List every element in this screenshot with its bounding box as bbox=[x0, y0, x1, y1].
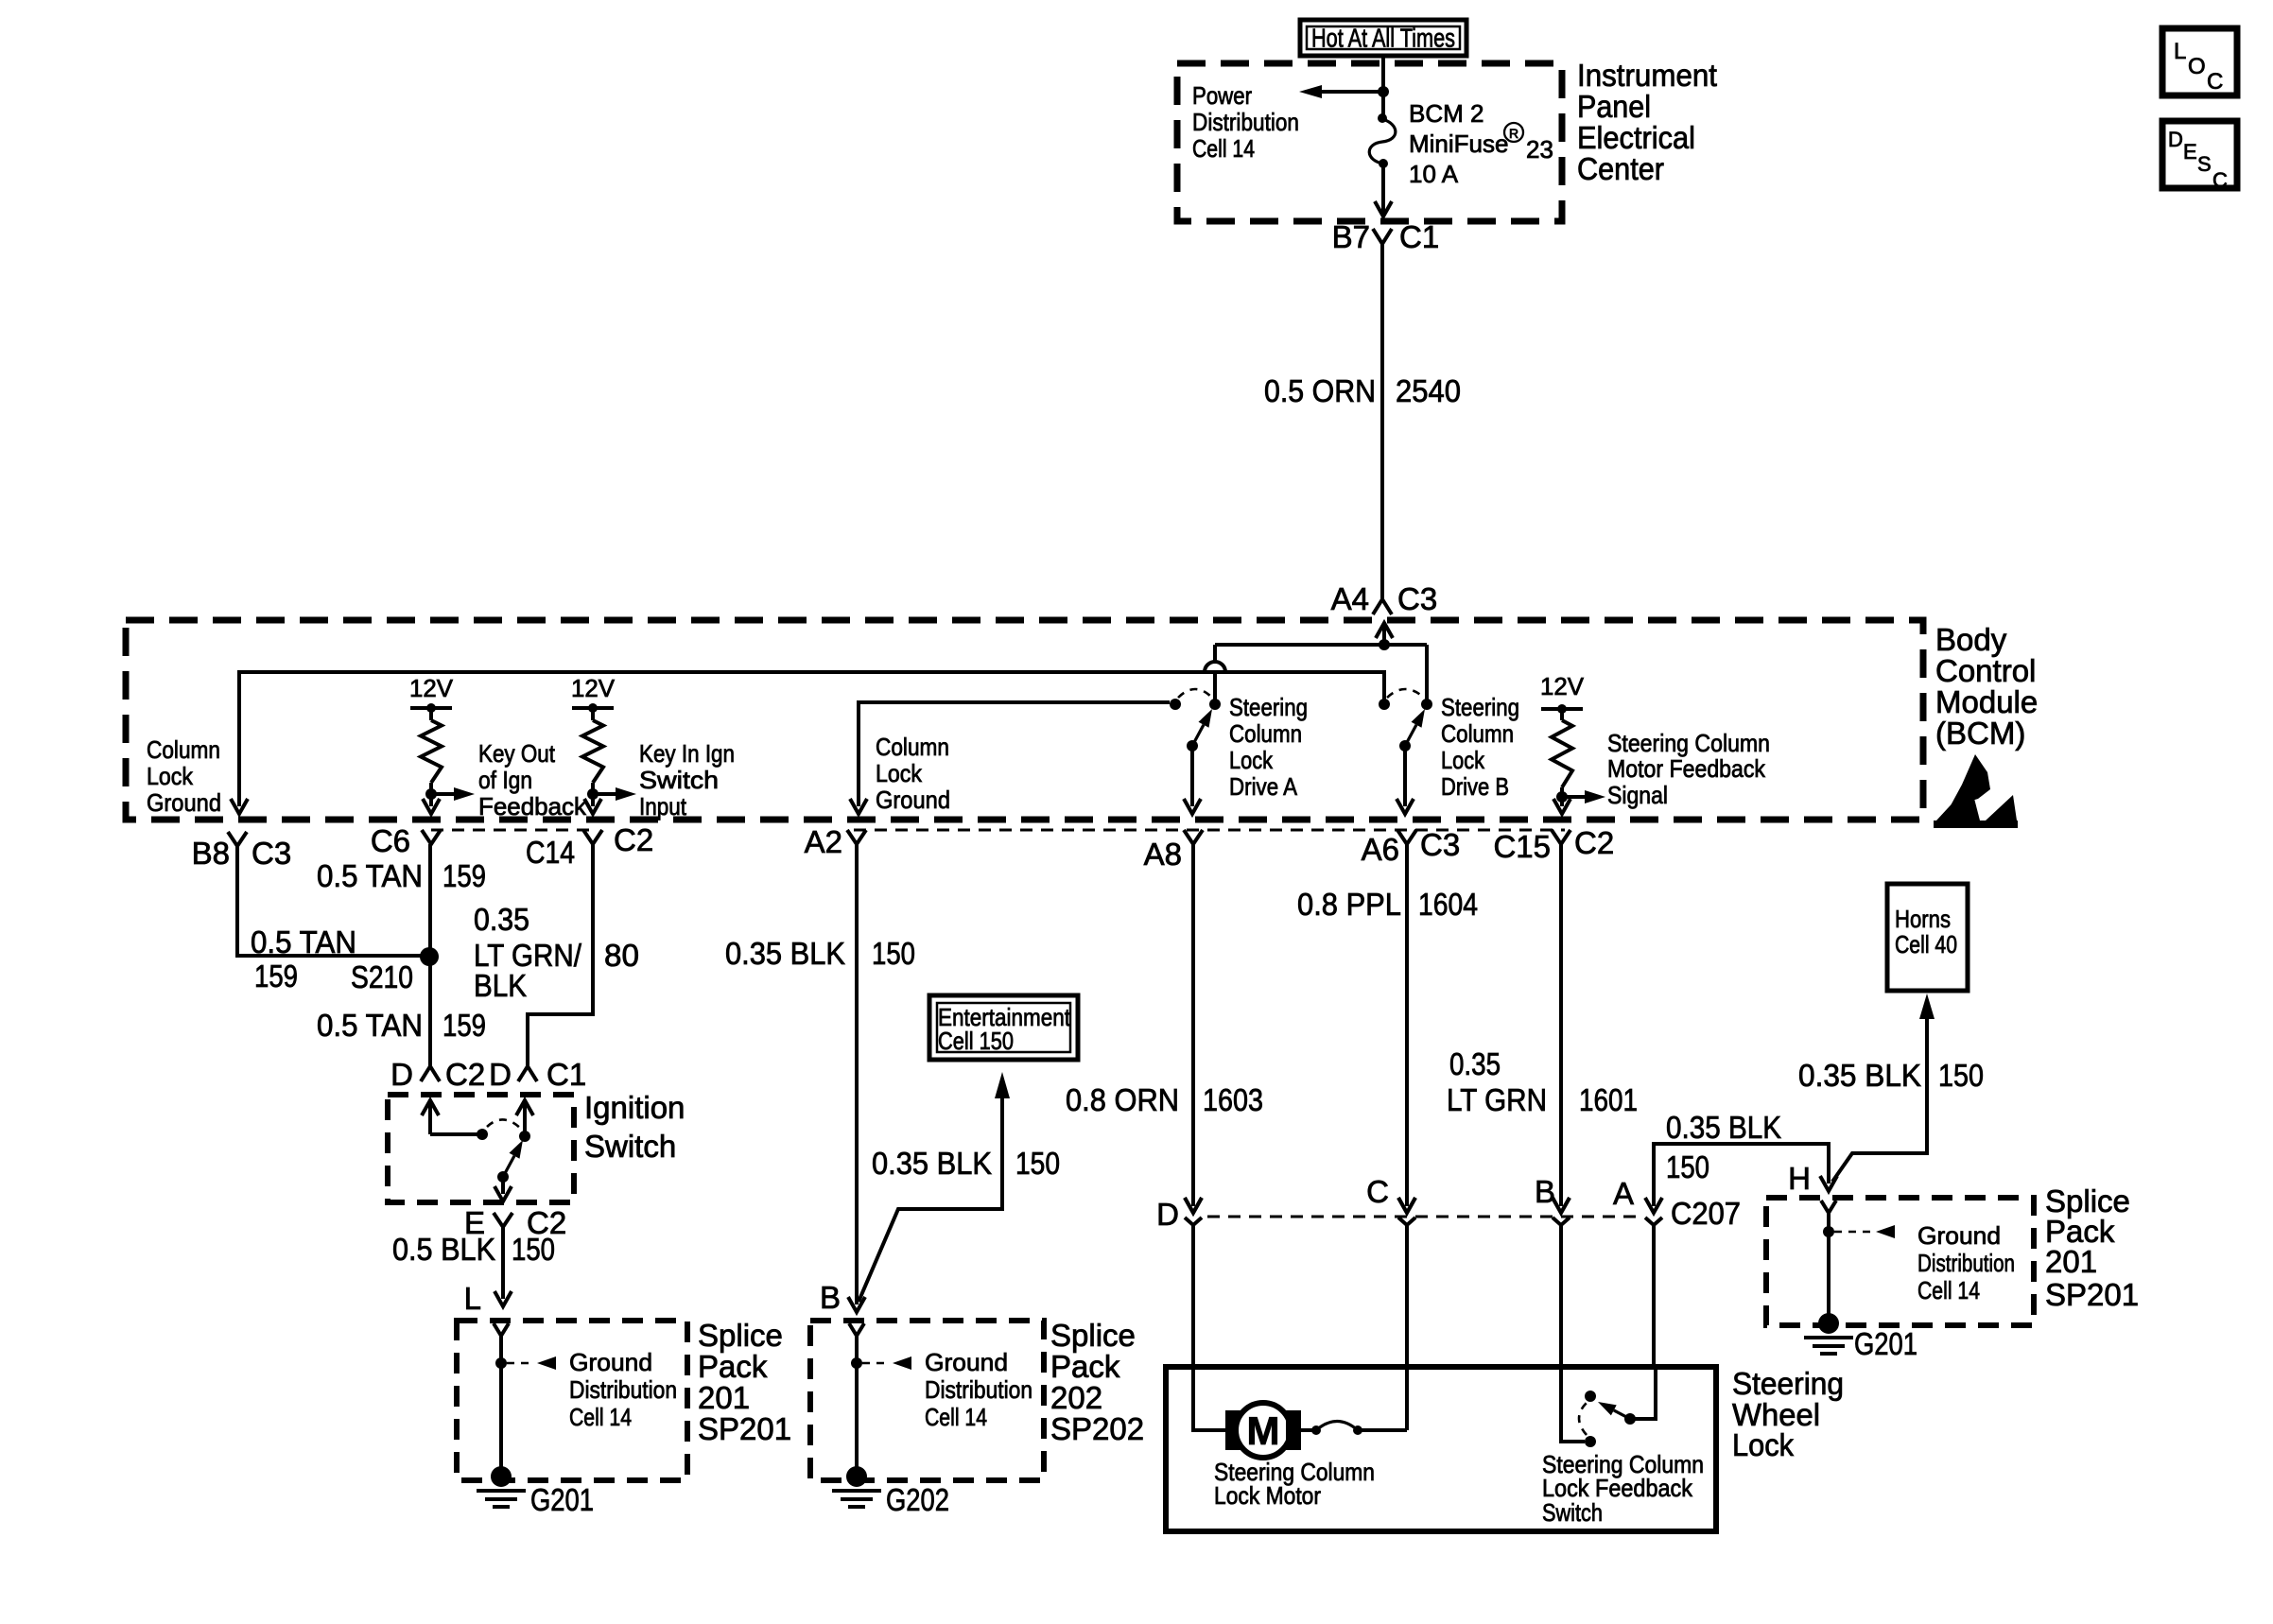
svg-text:Pack: Pack bbox=[1050, 1349, 1120, 1384]
svg-text:Switch: Switch bbox=[584, 1129, 676, 1164]
label 0.35 BLK 150 (A2) bbox=[725, 936, 915, 971]
svg-text:Lock: Lock bbox=[1229, 746, 1274, 774]
svg-text:D: D bbox=[489, 1057, 512, 1092]
wire B8 to S210 bbox=[237, 844, 422, 956]
svg-text:C15: C15 bbox=[1493, 829, 1551, 864]
svg-text:23: 23 bbox=[1526, 135, 1553, 164]
wire C from motor bbox=[1405, 1367, 1409, 1430]
svg-text:Column: Column bbox=[876, 733, 949, 761]
svg-text:C2: C2 bbox=[614, 822, 653, 857]
svg-text:0.5 BLK: 0.5 BLK bbox=[392, 1232, 495, 1267]
svg-text:159: 159 bbox=[442, 858, 486, 893]
wire D into motor bbox=[1193, 1367, 1225, 1430]
svg-text:Body: Body bbox=[1935, 622, 2007, 657]
svg-text:C1: C1 bbox=[1399, 219, 1439, 254]
junction: bus to A4/C3 with arrow bbox=[1376, 623, 1393, 650]
label Body Control Module (BCM) bbox=[1935, 622, 2038, 751]
svg-text:A: A bbox=[1613, 1176, 1634, 1211]
svg-text:Key In Ign: Key In Ign bbox=[639, 739, 735, 768]
label Splice Pack 202 SP202 bbox=[1050, 1318, 1144, 1446]
svg-text:Center: Center bbox=[1577, 151, 1664, 186]
ground G201 left bbox=[477, 1466, 594, 1517]
svg-text:201: 201 bbox=[2045, 1244, 2097, 1279]
connector A6 C3 bbox=[1362, 827, 1461, 867]
connector pin B bbox=[1535, 1174, 1570, 1370]
svg-text:80: 80 bbox=[604, 938, 639, 973]
svg-text:150: 150 bbox=[1666, 1149, 1709, 1184]
label Column Lock Ground left bbox=[147, 735, 221, 817]
connector A8 bbox=[1144, 830, 1203, 872]
svg-text:M: M bbox=[1247, 1408, 1280, 1453]
motor steering column lock bbox=[1225, 1403, 1301, 1458]
ground G201 right bbox=[1804, 1313, 1917, 1361]
resistor: key in ign switch input pull-up bbox=[571, 674, 636, 814]
label 0.8 ORN 1603 bbox=[1066, 1082, 1263, 1117]
svg-text:Splice: Splice bbox=[698, 1318, 783, 1353]
svg-text:Ignition: Ignition bbox=[584, 1090, 685, 1125]
label Splice Pack 201 SP201 right bbox=[2045, 1183, 2139, 1312]
svg-text:H: H bbox=[1788, 1161, 1811, 1196]
svg-text:10 A: 10 A bbox=[1409, 160, 1459, 188]
label Instrument Panel Electrical Center bbox=[1577, 58, 1717, 186]
svg-text:150: 150 bbox=[1015, 1146, 1060, 1181]
label Steering Column Lock Drive B bbox=[1441, 693, 1519, 801]
svg-text:LT GRN: LT GRN bbox=[1447, 1082, 1547, 1117]
svg-text:Module: Module bbox=[1935, 684, 2038, 719]
svg-text:SP201: SP201 bbox=[698, 1411, 791, 1446]
svg-text:150: 150 bbox=[512, 1232, 555, 1267]
svg-text:1604: 1604 bbox=[1418, 887, 1478, 922]
connector pin C bbox=[1366, 1174, 1415, 1370]
svg-text:Electrical: Electrical bbox=[1577, 120, 1695, 155]
connector C15 C2 bbox=[1493, 825, 1614, 864]
svg-text:Distribution: Distribution bbox=[1192, 108, 1299, 136]
label 0.5 TAN 159 (S210 branch) bbox=[251, 924, 356, 993]
Ignition Switch box bbox=[388, 1095, 574, 1202]
label Steering Wheel Lock bbox=[1732, 1366, 1844, 1462]
wire A up to splice H bbox=[1645, 1144, 1837, 1213]
svg-text:Steering: Steering bbox=[1732, 1366, 1844, 1401]
ESD sensitive symbol bbox=[1934, 754, 2018, 828]
label 0.5 TAN 159 (lower) bbox=[317, 1008, 486, 1043]
svg-text:Ground: Ground bbox=[876, 786, 950, 814]
label 0.5 ORN 2540 bbox=[1264, 373, 1461, 408]
connector C14 C2 bbox=[526, 822, 653, 870]
svg-text:A2: A2 bbox=[805, 824, 842, 859]
label 0.8 PPL 1604 bbox=[1297, 887, 1478, 922]
svg-text:Drive B: Drive B bbox=[1441, 772, 1509, 801]
svg-text:12V: 12V bbox=[571, 674, 616, 702]
label Column Lock Ground right bbox=[876, 733, 950, 814]
svg-text:Cell 150: Cell 150 bbox=[938, 1027, 1014, 1055]
connector E C2 bbox=[464, 1205, 566, 1240]
label 0.5 BLK 150 bbox=[392, 1232, 555, 1267]
svg-text:C2: C2 bbox=[445, 1057, 485, 1092]
svg-text:0.8 PPL: 0.8 PPL bbox=[1297, 887, 1401, 922]
svg-text:Splice: Splice bbox=[1050, 1318, 1136, 1353]
wire splice to horns bbox=[1832, 993, 1935, 1182]
wire 0.5 BLK 150 bbox=[495, 1227, 512, 1306]
svg-text:L: L bbox=[2174, 39, 2186, 64]
ignition switch contacts bbox=[422, 1100, 533, 1201]
label 0.35 BLK 150 (A wire) bbox=[1666, 1110, 1781, 1184]
svg-text:150: 150 bbox=[872, 936, 915, 971]
svg-text:159: 159 bbox=[442, 1008, 486, 1043]
svg-text:(BCM): (BCM) bbox=[1935, 716, 2025, 751]
svg-text:B8: B8 bbox=[192, 836, 230, 871]
svg-text:Panel: Panel bbox=[1577, 89, 1651, 124]
Splice Pack SP201 box left bbox=[457, 1321, 687, 1480]
Body Control Module box bbox=[126, 620, 1923, 820]
svg-text:202: 202 bbox=[1050, 1380, 1102, 1415]
svg-text:BCM 2: BCM 2 bbox=[1409, 99, 1484, 128]
svg-text:150: 150 bbox=[1938, 1058, 1984, 1093]
svg-text:Cell 14: Cell 14 bbox=[569, 1403, 632, 1431]
connector D C2 ignition bbox=[390, 1057, 485, 1092]
switch: steering column lock drive A bbox=[1170, 689, 1221, 814]
svg-text:Distribution: Distribution bbox=[1917, 1249, 2015, 1277]
svg-text:Lock: Lock bbox=[1441, 746, 1485, 774]
svg-text:0.35: 0.35 bbox=[1449, 1046, 1501, 1081]
switch steering column lock feedback bbox=[1579, 1367, 1656, 1447]
connector pin D bbox=[1156, 1197, 1202, 1370]
label 0.35 BLK 150 (entertainment) bbox=[872, 1146, 1060, 1181]
svg-text:Input: Input bbox=[639, 792, 687, 821]
label Steering Column Lock Feedback Switch bbox=[1542, 1450, 1704, 1527]
svg-text:Steering: Steering bbox=[1441, 693, 1519, 721]
label BCM 2 MiniFuse R 23 10 A bbox=[1409, 99, 1553, 188]
connector into SP201 bbox=[494, 1323, 509, 1336]
svg-text:2540: 2540 bbox=[1396, 373, 1461, 408]
svg-text:R: R bbox=[1509, 126, 1518, 141]
svg-text:Distribution: Distribution bbox=[925, 1375, 1032, 1404]
svg-text:G201: G201 bbox=[530, 1482, 594, 1517]
svg-text:Ground: Ground bbox=[569, 1348, 652, 1376]
svg-text:A4: A4 bbox=[1331, 581, 1369, 616]
wire A8 0.8 ORN 1603 bbox=[1185, 844, 1202, 1213]
svg-text:G201: G201 bbox=[1854, 1326, 1917, 1361]
Instrument Panel Electrical Center box bbox=[1177, 63, 1562, 221]
svg-text:Hot At All Times: Hot At All Times bbox=[1311, 24, 1455, 53]
Entertainment Cell 150 box bbox=[929, 995, 1078, 1060]
label Key Out of Ign Feedback bbox=[478, 739, 587, 821]
svg-text:0.5 TAN: 0.5 TAN bbox=[317, 1008, 423, 1043]
Splice Pack SP202 box bbox=[810, 1321, 1044, 1480]
svg-text:0.5 ORN: 0.5 ORN bbox=[1264, 373, 1376, 408]
svg-text:12V: 12V bbox=[409, 674, 454, 702]
resistor: steering column motor feedback pull-up bbox=[1540, 672, 1605, 814]
svg-text:C14: C14 bbox=[526, 835, 575, 870]
connector line C6-C14-C2 bbox=[431, 829, 593, 832]
svg-text:1603: 1603 bbox=[1203, 1082, 1263, 1117]
svg-text:Lock: Lock bbox=[147, 762, 194, 790]
svg-text:Lock: Lock bbox=[1732, 1427, 1794, 1462]
svg-text:0.35 BLK: 0.35 BLK bbox=[872, 1146, 992, 1181]
svg-text:B: B bbox=[820, 1280, 841, 1315]
svg-text:G202: G202 bbox=[886, 1482, 949, 1517]
wire A2 0.35 BLK 150 to SP202 bbox=[848, 844, 865, 1312]
svg-text:C: C bbox=[2212, 168, 2228, 192]
svg-text:D: D bbox=[2168, 128, 2183, 151]
svg-text:C6: C6 bbox=[371, 823, 410, 858]
svg-text:0.35 BLK: 0.35 BLK bbox=[1666, 1110, 1781, 1145]
svg-text:Feedback: Feedback bbox=[478, 792, 587, 821]
svg-text:A8: A8 bbox=[1144, 837, 1182, 872]
label Ignition Switch bbox=[584, 1090, 685, 1164]
node: fuse feed junction bbox=[1378, 86, 1389, 97]
wire to Entertainment bbox=[859, 1072, 1010, 1302]
svg-text:C: C bbox=[2207, 69, 2223, 95]
connector B7 C1 bbox=[1332, 219, 1440, 254]
svg-text:MiniFuse: MiniFuse bbox=[1409, 130, 1508, 158]
svg-text:of Ign: of Ign bbox=[478, 766, 532, 794]
wire B into feedback switch bbox=[1561, 1367, 1585, 1442]
ground G202 bbox=[832, 1466, 949, 1517]
svg-text:Steering: Steering bbox=[1229, 693, 1308, 721]
Horns Cell 40 box bbox=[1887, 884, 1968, 991]
splice S210 bbox=[351, 947, 439, 994]
label Ground Distribution Cell 14 (right) bbox=[1917, 1221, 2015, 1304]
arrow to power distribution bbox=[1299, 85, 1383, 98]
wire: fuse output to IPEC edge bbox=[1375, 163, 1392, 216]
svg-text:Distribution: Distribution bbox=[569, 1375, 677, 1404]
svg-text:Column: Column bbox=[147, 735, 220, 764]
svg-text:Column: Column bbox=[1441, 719, 1514, 748]
svg-text:Horns: Horns bbox=[1895, 905, 1951, 933]
svg-text:BLK: BLK bbox=[474, 968, 527, 1003]
svg-text:S210: S210 bbox=[351, 959, 413, 994]
label 0.5 TAN 159 (upper) bbox=[317, 858, 486, 893]
connector D C1 ignition bbox=[489, 1057, 586, 1092]
svg-text:Ground: Ground bbox=[1917, 1221, 2001, 1250]
wire: column lock ground A2 bbox=[850, 702, 1170, 814]
label 0.35 BLK 150 (horns wire) bbox=[1798, 1058, 1984, 1093]
svg-text:Key Out: Key Out bbox=[478, 739, 556, 768]
svg-text:Pack: Pack bbox=[698, 1349, 768, 1384]
svg-text:1601: 1601 bbox=[1579, 1082, 1638, 1117]
connector into SP202 bbox=[849, 1323, 864, 1336]
power feed box "Hot At All Times" bbox=[1300, 20, 1466, 56]
resistor: key out of ign feedback pull-up bbox=[409, 674, 475, 814]
label 0.35 LT GRN 1601 bbox=[1447, 1046, 1638, 1117]
svg-text:Cell 14: Cell 14 bbox=[1917, 1276, 1980, 1304]
svg-text:Drive A: Drive A bbox=[1229, 772, 1298, 801]
svg-text:D: D bbox=[390, 1057, 413, 1092]
svg-text:Motor Feedback: Motor Feedback bbox=[1607, 754, 1766, 783]
wire C15 0.35 LT GRN 1601 bbox=[1553, 844, 1570, 1213]
wire 0.5 ORN 2540 bbox=[1380, 244, 1384, 586]
svg-text:B7: B7 bbox=[1332, 219, 1370, 254]
svg-text:Ground: Ground bbox=[925, 1348, 1008, 1376]
svg-text:Cell 14: Cell 14 bbox=[1192, 134, 1255, 163]
svg-text:0.35 BLK: 0.35 BLK bbox=[1798, 1058, 1921, 1093]
switch: steering column lock drive B bbox=[1379, 689, 1432, 814]
svg-text:12V: 12V bbox=[1540, 672, 1585, 700]
svg-text:0.35 BLK: 0.35 BLK bbox=[725, 936, 845, 971]
svg-text:Instrument: Instrument bbox=[1577, 58, 1717, 93]
Splice Pack SP201 box right bbox=[1766, 1198, 2034, 1325]
label Steering Column Lock Motor bbox=[1214, 1458, 1375, 1510]
svg-text:Cell 14: Cell 14 bbox=[925, 1403, 987, 1431]
svg-text:Control: Control bbox=[1935, 653, 2036, 688]
connector C6 bbox=[371, 823, 441, 858]
svg-text:Signal: Signal bbox=[1607, 781, 1668, 809]
label Power Distribution Cell 14 bbox=[1192, 81, 1299, 163]
svg-text:0.5 TAN: 0.5 TAN bbox=[251, 924, 356, 959]
label Steering Column Lock Drive A bbox=[1229, 693, 1308, 801]
fuse BCM 2 MiniFuse 23 10 A bbox=[1369, 113, 1396, 168]
svg-text:0.8 ORN: 0.8 ORN bbox=[1066, 1082, 1179, 1117]
svg-text:O: O bbox=[2188, 54, 2206, 79]
svg-text:0.35: 0.35 bbox=[474, 902, 529, 937]
svg-text:0.5 TAN: 0.5 TAN bbox=[317, 858, 423, 893]
svg-text:Column: Column bbox=[1229, 719, 1302, 748]
connector A2 bbox=[805, 824, 866, 859]
label Ground Distribution Cell 14 (SP202) bbox=[925, 1348, 1032, 1431]
svg-text:Ground: Ground bbox=[147, 788, 221, 817]
svg-text:C3: C3 bbox=[1420, 827, 1460, 862]
svg-text:A6: A6 bbox=[1362, 832, 1399, 867]
svg-text:SP202: SP202 bbox=[1050, 1411, 1144, 1446]
connector pin A C207 bbox=[1613, 1176, 1741, 1370]
svg-text:Lock Motor: Lock Motor bbox=[1214, 1481, 1321, 1510]
svg-text:Lock: Lock bbox=[876, 759, 923, 787]
motor brush switch bbox=[1301, 1422, 1407, 1436]
wire: internal bus upper (drive A/B feed) bbox=[1205, 645, 1427, 700]
connector B8 C3 bbox=[192, 832, 292, 871]
wire C6 159 bbox=[428, 844, 432, 1066]
svg-text:B: B bbox=[1535, 1174, 1555, 1209]
svg-text:C3: C3 bbox=[252, 836, 291, 871]
Steering Wheel Lock box bbox=[1166, 1367, 1716, 1531]
connector line A2..C15 bbox=[854, 829, 1565, 832]
LOC reference box bbox=[2162, 28, 2237, 95]
DESC reference box bbox=[2162, 121, 2237, 192]
svg-text:E: E bbox=[2183, 140, 2197, 164]
svg-text:Switch: Switch bbox=[639, 766, 719, 794]
svg-text:SP201: SP201 bbox=[2045, 1277, 2139, 1312]
splice wire and junction SP201 bbox=[495, 1336, 556, 1468]
wire A6 0.8 PPL 1604 bbox=[1398, 844, 1415, 1213]
connector C207 line bbox=[1207, 1216, 1640, 1218]
label Splice Pack 201 SP201 left bbox=[698, 1318, 791, 1446]
svg-text:Switch: Switch bbox=[1542, 1498, 1603, 1527]
svg-text:C207: C207 bbox=[1671, 1196, 1741, 1231]
svg-text:C1: C1 bbox=[547, 1057, 586, 1092]
svg-text:Cell 40: Cell 40 bbox=[1895, 930, 1957, 959]
wire: battery feed into IPEC bbox=[1381, 56, 1385, 119]
svg-text:L: L bbox=[464, 1281, 481, 1316]
svg-text:C: C bbox=[1366, 1174, 1389, 1209]
svg-text:201: 201 bbox=[698, 1380, 750, 1415]
label Steering Column Motor Feedback Signal bbox=[1607, 729, 1770, 809]
svg-text:S: S bbox=[2197, 152, 2212, 176]
splice wire and junction right SP201 bbox=[1823, 1213, 1895, 1315]
splice wire and junction SP202 bbox=[851, 1336, 911, 1468]
svg-text:C3: C3 bbox=[1397, 581, 1437, 616]
label Ground Distribution Cell 14 (SP201 left) bbox=[569, 1348, 677, 1431]
connector into right SP201 bbox=[1821, 1201, 1836, 1213]
svg-text:Steering Column: Steering Column bbox=[1607, 729, 1770, 757]
svg-text:C2: C2 bbox=[1574, 825, 1614, 860]
label 0.35 LT GRN/ BLK 80 bbox=[474, 902, 639, 1003]
svg-text:Power: Power bbox=[1192, 81, 1252, 110]
wire C2 80 bbox=[528, 844, 593, 1066]
wire: internal bus lower (column lock ground B8) bbox=[231, 672, 1384, 814]
svg-text:D: D bbox=[1156, 1197, 1179, 1232]
svg-text:159: 159 bbox=[254, 959, 298, 993]
connector A4 C3 bbox=[1331, 581, 1438, 616]
label Key In Ign Switch Input bbox=[639, 739, 735, 821]
